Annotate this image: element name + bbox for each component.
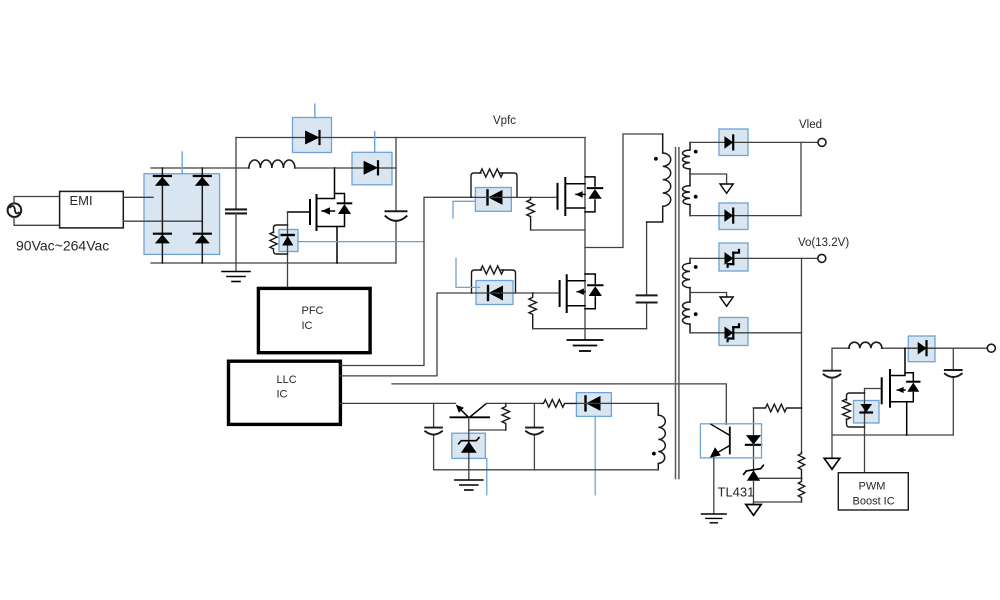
blue connector wire from gate diode <box>298 241 424 243</box>
wire riser at x=396 <box>395 138 397 212</box>
wire mid node to primary top <box>585 134 663 248</box>
wire opto LED branch <box>753 408 755 435</box>
svg-text:TL431: TL431 <box>718 485 755 500</box>
diode D2 <box>364 161 378 175</box>
svg-text:Vpfc: Vpfc <box>493 115 516 127</box>
wire Vpfc rail <box>236 137 585 139</box>
resistor R3 gate-source of Q3 <box>529 293 537 329</box>
wire bridge top rail <box>151 167 249 169</box>
wire feedback bus to optocoupler <box>392 384 726 425</box>
diode D2 highlight box <box>352 152 392 185</box>
capacitor C4 <box>433 403 435 469</box>
return arrow below C6 <box>824 458 840 469</box>
inductor L1 <box>249 160 295 168</box>
ground half-bridge <box>568 340 603 351</box>
diode D3 PFC gate speedup <box>281 235 294 245</box>
bridge diode lower-right <box>194 234 211 244</box>
gate network GD2: resistor loop <box>472 266 516 293</box>
zener diode highlight box <box>452 433 486 458</box>
transistor Q4 buffer <box>451 404 490 418</box>
wire AC top to EMI <box>14 197 60 204</box>
boost gate diode highlight box <box>854 401 880 424</box>
wire Vo sense riser <box>801 258 803 453</box>
capacitor C7 boost output <box>945 370 962 377</box>
aux winding W1 <box>658 403 665 469</box>
svg-text:PFC: PFC <box>302 305 324 317</box>
return arrow below TL431 <box>746 505 761 516</box>
mosfet Q1 <box>288 168 352 263</box>
wire LLC out1 to GD1 <box>340 197 475 365</box>
wire through GD1 to M1 gate <box>475 196 557 198</box>
wire center tap S3/S4 <box>690 293 727 298</box>
diode D1 highlight box <box>293 118 332 153</box>
wire boost input elbow <box>832 348 849 371</box>
output diode D6 <box>724 209 733 223</box>
blue connector elbow GD2 <box>456 259 480 288</box>
center tap return arrow <box>720 184 733 193</box>
boost diode highlight box <box>908 336 935 362</box>
bridge diode lower-left <box>154 234 171 244</box>
resistor R6 (divider lower) <box>798 478 804 502</box>
gate-drive diode GD2 <box>488 286 503 301</box>
ground below zener <box>455 480 483 490</box>
gate-drive diode GD2 highlight box <box>476 281 513 305</box>
LLC IC output wires <box>340 197 726 424</box>
capacitor C1 <box>226 209 246 213</box>
blue highlight fills layer <box>144 118 935 459</box>
wire vcc bottom rail <box>434 469 659 471</box>
center tap return arrow S3/S4 <box>720 297 733 306</box>
svg-text:Vled: Vled <box>799 119 822 131</box>
wires S3/S4 to diodes and Vo rail <box>690 258 818 332</box>
wire bridge bottom rail <box>151 262 396 264</box>
TL431 U3 <box>744 465 764 481</box>
svg-text:Vo(13.2V): Vo(13.2V) <box>798 237 849 249</box>
boost gate diode D11 (points down) <box>860 404 872 413</box>
mosfet Q2 (half-bridge high side) <box>558 177 603 215</box>
capacitor C6 boost input <box>824 371 841 378</box>
bridge right leg wire <box>201 168 203 263</box>
output diode D7 highlight box <box>719 243 748 271</box>
output diode D5 <box>724 135 733 149</box>
wire AC bottom to EMI <box>14 217 60 225</box>
wire EMI to bridge lower <box>123 220 202 222</box>
EMI filter block <box>60 191 124 228</box>
terminal Vled <box>818 138 826 146</box>
wire TL431 ref to divider junction <box>754 477 802 479</box>
svg-text:LLC: LLC <box>277 374 297 386</box>
blue connector stub below D9 <box>594 416 596 494</box>
blue connector stub below zener <box>486 458 488 494</box>
terminal Vo <box>818 254 826 262</box>
PFC IC U1 <box>258 288 370 352</box>
ground opto emitter <box>701 514 726 523</box>
transformer core <box>676 148 679 479</box>
schottky diode D8 <box>725 324 740 341</box>
gate-drive diode GD1 highlight box <box>475 188 511 212</box>
secondary winding S4 <box>682 293 690 333</box>
wire EMI to bridge upper <box>123 196 153 198</box>
wire riser bus at x=236 <box>235 138 237 210</box>
capacitor C2 <box>386 211 407 221</box>
output diode D6 highlight box <box>719 203 748 230</box>
wire boost bottom rail <box>832 434 953 436</box>
S3 polarity dot <box>694 265 698 269</box>
resistor R4 (opto series) <box>753 404 801 412</box>
resistor R8 series <box>541 400 576 408</box>
secondary winding S3 <box>682 258 690 292</box>
blue connector elbow GD1 <box>453 201 475 218</box>
secondary winding S2 <box>683 174 690 216</box>
zener diode ZD1 <box>459 438 479 453</box>
wire center tap S1/S2 <box>690 174 727 184</box>
wire through GD2 to M2 gate <box>476 292 560 294</box>
diode D1 <box>305 131 319 145</box>
connector stub above D1 <box>314 104 316 118</box>
wire right cap leads <box>952 348 954 370</box>
wire Q4 base down to zener <box>468 417 470 470</box>
wire Q2 resistor return <box>531 229 585 231</box>
half-bridge rail wire <box>584 138 586 340</box>
svg-text:Boost IC: Boost IC <box>853 496 895 508</box>
S1 polarity dot <box>694 150 698 154</box>
wire D9 to aux winding <box>576 402 658 404</box>
wire base to bias resistor <box>469 429 506 431</box>
wire S1 to D5 and Vled terminal <box>690 142 818 215</box>
wire to return arrow <box>753 502 755 505</box>
wire Q4 collector <box>486 402 541 404</box>
output diode D8 highlight box <box>719 318 748 346</box>
resistor R5 (divider upper) <box>798 452 804 478</box>
S4 polarity dot <box>694 312 698 316</box>
wire LLC out3 to buffer transistor <box>340 402 455 404</box>
svg-text:EMI: EMI <box>70 193 93 208</box>
vcc diode highlight box <box>576 393 611 417</box>
wire TL431 bottom bus <box>754 501 802 503</box>
svg-text:IC: IC <box>277 389 288 401</box>
ground below bridge <box>222 272 250 282</box>
aux winding polarity dot <box>652 452 656 456</box>
bridge rectifier highlight box <box>144 174 220 255</box>
bridge diode upper-left <box>154 176 171 186</box>
capacitor C3 resonant <box>646 222 648 329</box>
terminal boost output <box>987 344 995 352</box>
wire boost gate vertical <box>864 389 866 473</box>
wire low-side source return <box>533 328 647 330</box>
schottky diode D7 <box>725 250 740 267</box>
opto LED diode <box>746 435 761 445</box>
transformer T1 primary winding <box>647 134 671 222</box>
wire LLC out2 to GD2 <box>340 293 476 376</box>
wire S2 to D6 and return riser <box>690 215 801 217</box>
boost diode D10 <box>918 341 927 355</box>
inductor L2 boost <box>849 342 882 348</box>
svg-text:IC: IC <box>302 320 313 332</box>
wire opto emitter to ground <box>713 458 715 514</box>
bridge internals <box>162 168 202 263</box>
PFC gate diode highlight box <box>279 230 298 252</box>
AC source V1 <box>8 203 22 217</box>
mosfet Q5 boost <box>865 348 920 435</box>
S2 polarity dot <box>694 195 698 199</box>
wire ground stem <box>235 263 237 271</box>
opto phototransistor <box>710 424 730 457</box>
capacitor C5 <box>533 403 535 469</box>
LLC IC U2 <box>229 361 341 424</box>
PWM Boost IC U5 <box>838 473 908 510</box>
optocoupler U4 <box>700 424 761 458</box>
secondary winding S1 <box>683 142 690 174</box>
resistor R7 bias <box>502 403 510 430</box>
connector stub above bridge <box>181 152 183 174</box>
vcc diode D9 <box>586 396 601 411</box>
PFC gate drive: vertical wire <box>287 212 289 288</box>
wire zener to rail and ground <box>468 470 470 480</box>
wire boost top rail <box>882 347 988 349</box>
resistor R2 gate-source of Q2 <box>527 197 535 230</box>
connector stub above D2 <box>374 132 376 153</box>
bridge left leg wire <box>161 168 163 263</box>
resistor R9 boost gate loop <box>843 393 865 427</box>
output diode D5 highlight box <box>719 129 748 156</box>
svg-text:90Vac~264Vac: 90Vac~264Vac <box>16 238 109 254</box>
bridge diode upper-right <box>194 176 211 186</box>
wire inductor to boost diode D2 <box>295 167 396 169</box>
wire left cap lower lead <box>831 378 833 458</box>
mosfet Q3 (half-bridge low side) <box>560 274 603 312</box>
resistor R1 (parallel loop) <box>270 225 288 254</box>
gate network GD1: resistor loop <box>471 169 517 197</box>
svg-text:PWM: PWM <box>859 481 886 493</box>
primary polarity dot <box>654 157 658 161</box>
gate-drive diode GD1 <box>488 190 503 205</box>
